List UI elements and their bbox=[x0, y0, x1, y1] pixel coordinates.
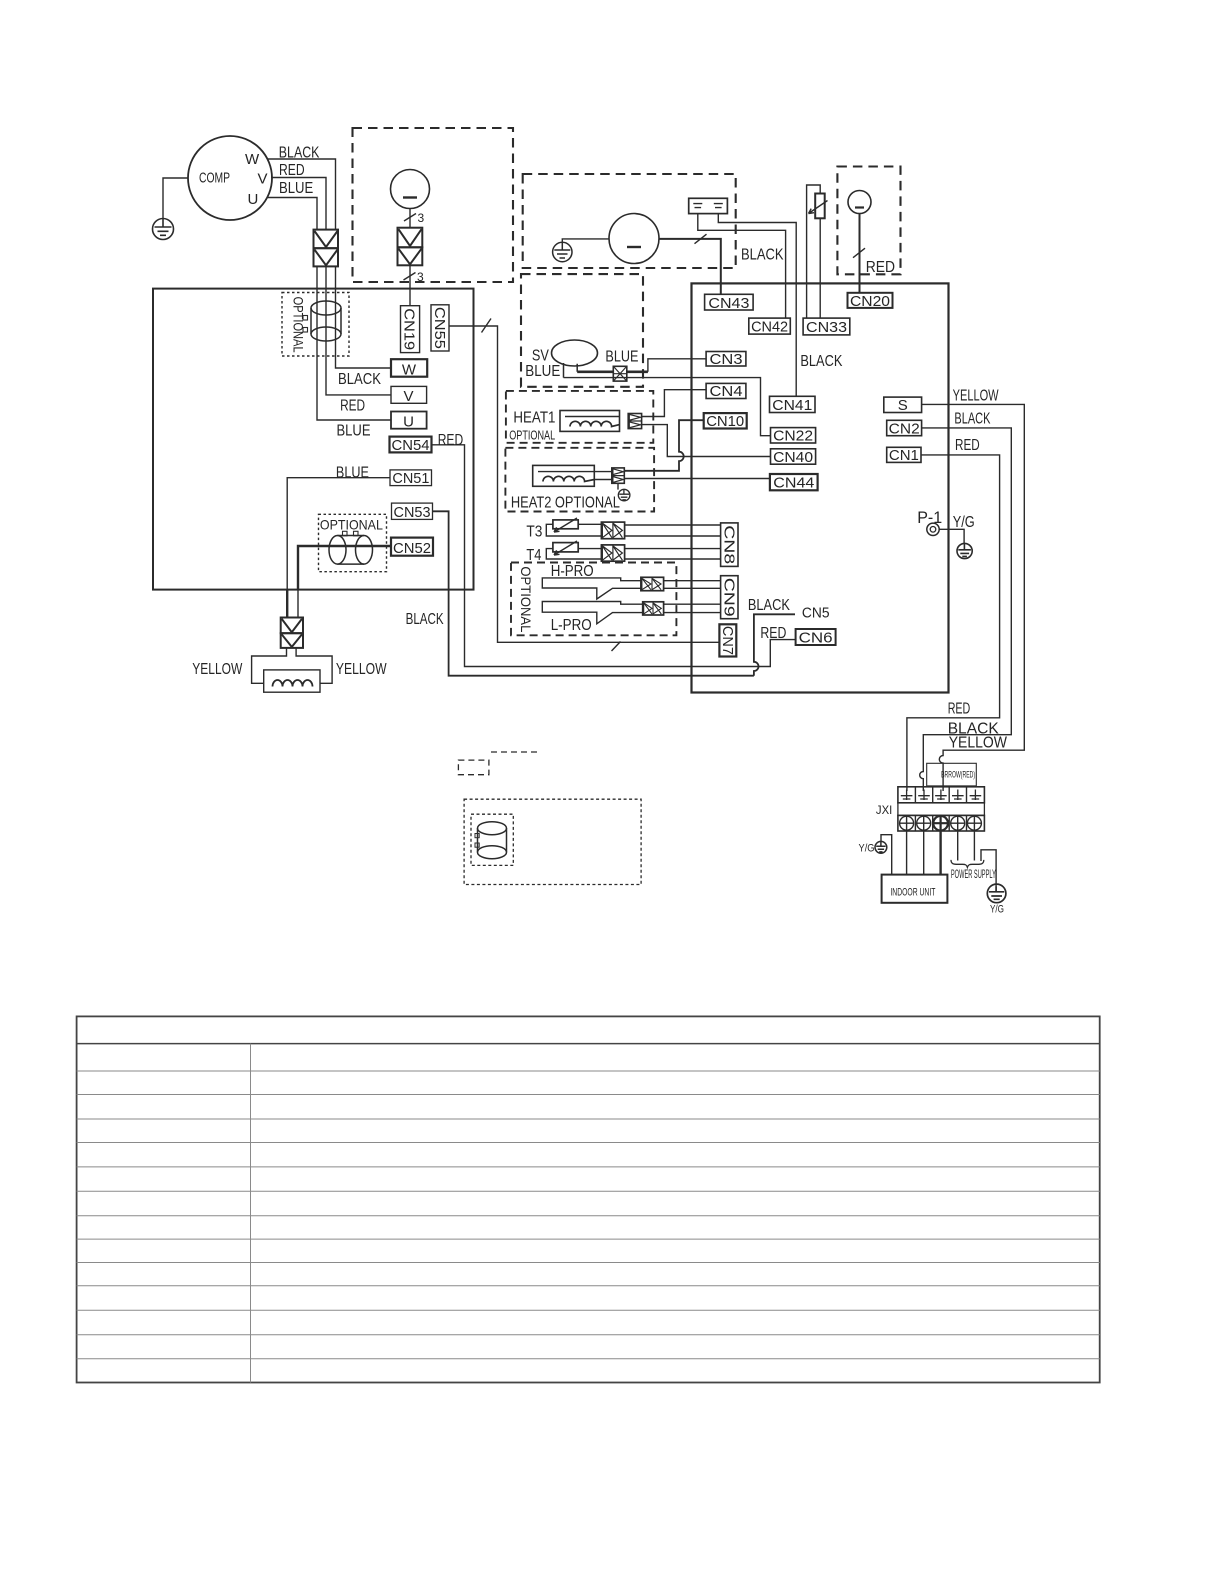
ground (power supply Y/G) bbox=[987, 884, 1006, 903]
svg-text:RED: RED bbox=[438, 432, 464, 449]
connector (T4 plug) bbox=[601, 545, 624, 561]
svg-text:RED: RED bbox=[948, 701, 971, 718]
wire heater2 to CN44 bbox=[594, 479, 770, 480]
svg-text:RED: RED bbox=[279, 162, 305, 179]
svg-text:CN41: CN41 bbox=[772, 397, 812, 414]
pressure switch H-PRO bbox=[542, 578, 641, 599]
terminal screws bottom bbox=[900, 816, 914, 830]
svg-text:BLACK: BLACK bbox=[741, 246, 784, 263]
svg-text:HEAT1: HEAT1 bbox=[513, 410, 555, 427]
connector (fan motor plug) bbox=[398, 228, 423, 266]
svg-text:3: 3 bbox=[418, 211, 425, 225]
compressor COMP bbox=[188, 136, 272, 220]
svg-text:BLUE: BLUE bbox=[525, 363, 560, 380]
table outer border bbox=[77, 1016, 1100, 1382]
left unit box bbox=[153, 289, 474, 590]
wire CN1 RED to terminal 1 bbox=[907, 455, 1000, 791]
svg-text:COMP: COMP bbox=[199, 170, 230, 187]
svg-text:P-1: P-1 bbox=[917, 508, 942, 527]
svg-text:BLACK: BLACK bbox=[338, 371, 381, 388]
connector CN40 bbox=[771, 449, 816, 464]
svg-text:V: V bbox=[403, 388, 413, 405]
jumper BROWN(RED) loop bbox=[927, 763, 977, 786]
slash 3-wire mark bbox=[404, 214, 416, 222]
slash 3-wire mark bbox=[404, 273, 416, 281]
wire CN2 BLACK to terminal 2 bbox=[920, 428, 1012, 791]
fuse body bbox=[815, 194, 825, 219]
OPTIONAL reactor dotted box bbox=[282, 293, 349, 357]
wire motor to connector bbox=[409, 209, 411, 228]
svg-text:BLACK: BLACK bbox=[279, 145, 320, 162]
svg-text:CN42: CN42 bbox=[751, 319, 788, 336]
svg-text:INDOOR UNIT: INDOOR UNIT bbox=[890, 887, 935, 899]
slash mark bbox=[695, 234, 707, 244]
connector CN1 bbox=[887, 447, 921, 462]
svg-text:CN20: CN20 bbox=[850, 293, 890, 310]
wire H-PRO to CN9 bbox=[664, 581, 721, 589]
wire capacitor to CN42 bbox=[698, 214, 786, 319]
connector CN41 bbox=[770, 396, 816, 412]
terminal W bbox=[391, 359, 427, 377]
SV coil bbox=[552, 340, 598, 366]
wire power supply earth bbox=[981, 850, 996, 886]
svg-text:Y/G: Y/G bbox=[990, 904, 1004, 916]
ground (fan motor earth) bbox=[553, 242, 572, 261]
thermistor T4 bbox=[553, 543, 578, 552]
wire to V terminal bbox=[326, 266, 391, 395]
svg-text:CN53: CN53 bbox=[394, 504, 431, 521]
terminal U bbox=[391, 412, 427, 429]
wire V RED bbox=[271, 178, 326, 230]
HEAT2 dashed box bbox=[505, 448, 654, 512]
svg-text:CN40: CN40 bbox=[773, 449, 813, 466]
connector (T3 plug) bbox=[601, 522, 624, 539]
wire SV to CN22 bbox=[564, 378, 771, 436]
wire CN55 to CN7 bbox=[449, 326, 719, 642]
SV solenoid dashed box bbox=[521, 274, 643, 387]
legend dashed line bbox=[491, 751, 538, 753]
wire motor to ground bbox=[562, 239, 609, 243]
wire CN54 RED to CN6 bbox=[432, 445, 796, 667]
terminal screws top bbox=[901, 790, 913, 801]
terminal S bbox=[884, 397, 922, 412]
connector (heater2 plug) bbox=[612, 468, 625, 483]
ground (heater2 earth) bbox=[617, 483, 619, 489]
connector CN6 bbox=[796, 629, 836, 645]
svg-text:V: V bbox=[258, 171, 268, 188]
connector CN54 bbox=[390, 437, 432, 453]
svg-text:YELLOW: YELLOW bbox=[192, 661, 243, 678]
wire capacitor to CN41 bbox=[718, 214, 796, 397]
wire motor to CN43 bbox=[659, 239, 721, 294]
svg-text:RED: RED bbox=[866, 259, 895, 276]
svg-text:RED: RED bbox=[760, 625, 786, 642]
connector CN4 bbox=[706, 383, 746, 398]
svg-text:CN10: CN10 bbox=[706, 413, 744, 430]
svg-text:CN51: CN51 bbox=[392, 470, 429, 487]
svg-text:JXI: JXI bbox=[876, 805, 892, 817]
connector CN8 bbox=[721, 523, 738, 567]
connector CN22 bbox=[771, 428, 816, 443]
svg-text:L-PRO: L-PRO bbox=[551, 617, 592, 634]
terminal block JXI middle band bbox=[898, 803, 985, 816]
wire SV to connector (thick BLUE) bbox=[564, 363, 578, 378]
svg-text:H-PRO: H-PRO bbox=[551, 563, 594, 580]
wire L-PRO to CN9 bbox=[664, 604, 721, 612]
wire CN52 to transformer (thick) bbox=[298, 546, 391, 590]
thermal fuse loop to CN33 bbox=[807, 185, 821, 318]
wire to W terminal bbox=[336, 266, 392, 368]
wire S YELLOW to terminal 3 bbox=[922, 404, 1025, 791]
connector CN43 bbox=[705, 294, 754, 310]
pressure switch L-PRO bbox=[542, 602, 642, 624]
svg-text:CN44: CN44 bbox=[773, 475, 814, 492]
capacitor block bbox=[689, 198, 728, 213]
svg-text:CN55: CN55 bbox=[431, 307, 448, 349]
heater 1 bbox=[560, 411, 620, 432]
svg-text:T4: T4 bbox=[526, 547, 541, 564]
connector (transformer plug) bbox=[281, 618, 303, 648]
connector CN20 bbox=[848, 293, 893, 308]
svg-text:CN7: CN7 bbox=[719, 626, 736, 655]
svg-text:BLUE: BLUE bbox=[337, 423, 371, 440]
svg-text:BLUE: BLUE bbox=[605, 348, 638, 365]
svg-text:HEAT2 OPTIONAL: HEAT2 OPTIONAL bbox=[511, 495, 620, 512]
svg-text:U: U bbox=[248, 191, 259, 208]
legend outer dotted box bbox=[464, 799, 641, 884]
svg-text:CN4: CN4 bbox=[710, 383, 743, 400]
svg-text:BRROW(RED): BRROW(RED) bbox=[941, 770, 975, 781]
terminal block JXI bottom row bbox=[898, 815, 985, 831]
terminal block JXI top row bbox=[898, 787, 985, 803]
legend inner dotted box bbox=[471, 814, 513, 865]
wires to power supply bbox=[958, 831, 975, 861]
wires to indoor unit bbox=[907, 831, 924, 875]
svg-text:CN52: CN52 bbox=[393, 540, 431, 557]
svg-text:BLUE: BLUE bbox=[279, 180, 313, 197]
connector (L-PRO plug) bbox=[643, 602, 664, 615]
wire motor to CN20 bbox=[859, 214, 861, 293]
fan motor dashed box 2 bbox=[523, 174, 736, 268]
slash mark bbox=[853, 248, 865, 258]
svg-text:U: U bbox=[403, 414, 414, 431]
svg-text:BLACK: BLACK bbox=[800, 353, 842, 370]
connector (heater1 plug) bbox=[628, 414, 641, 429]
svg-text:RED: RED bbox=[340, 398, 365, 415]
svg-text:CN1: CN1 bbox=[889, 447, 919, 464]
terminal V bbox=[391, 386, 427, 403]
svg-text:W: W bbox=[245, 151, 260, 168]
connector (SV plug) bbox=[613, 366, 627, 381]
connector (COMP 3-pin plug) bbox=[314, 230, 339, 267]
svg-text:CN2: CN2 bbox=[889, 420, 920, 437]
fuse slash bbox=[809, 201, 828, 214]
OPTIONAL current-sensor dotted box bbox=[319, 514, 387, 571]
connector box CN19 bbox=[401, 306, 420, 353]
connector CN2 bbox=[887, 420, 922, 435]
terminal P-1 bbox=[927, 523, 939, 535]
current sensor (horizontal cylinder) bbox=[329, 531, 373, 564]
svg-text:Y/G: Y/G bbox=[859, 843, 875, 855]
svg-text:CN19: CN19 bbox=[401, 308, 418, 350]
wire CN53 BLACK to CN5 bbox=[433, 511, 796, 675]
connector CN51 bbox=[390, 470, 432, 486]
svg-text:CN33: CN33 bbox=[806, 319, 847, 336]
svg-text:CN9: CN9 bbox=[720, 578, 737, 617]
connector CN3 bbox=[706, 352, 746, 367]
OPTIONAL pressure-switch dashed box bbox=[511, 563, 676, 636]
wire CN51 BLUE to transformer bbox=[287, 478, 390, 590]
svg-text:CN54: CN54 bbox=[392, 437, 430, 454]
wire to U terminal bbox=[317, 266, 391, 420]
wire T3 to CN8 bbox=[625, 525, 721, 536]
svg-text:BLACK: BLACK bbox=[406, 611, 444, 628]
legend small dashed box bbox=[458, 760, 489, 775]
svg-text:YELLOW: YELLOW bbox=[953, 388, 1000, 405]
svg-text:CN43: CN43 bbox=[708, 295, 749, 312]
wire connector to CN19 bbox=[409, 265, 411, 305]
svg-text:BLACK: BLACK bbox=[954, 410, 990, 427]
wire heater1 to CN4 bbox=[642, 390, 707, 417]
fan motor dashed box 3 bbox=[837, 167, 900, 275]
connector CN7 bbox=[719, 624, 736, 656]
svg-text:CN8: CN8 bbox=[720, 525, 737, 564]
svg-text:S: S bbox=[898, 397, 908, 414]
ground (indoor Y/G) bbox=[881, 835, 892, 875]
connector box CN55 bbox=[431, 305, 449, 351]
thermistor T3 bbox=[553, 520, 578, 529]
connector CN44 bbox=[770, 474, 818, 490]
transformer coil box bbox=[264, 670, 320, 692]
svg-text:OPTIONAL: OPTIONAL bbox=[509, 427, 555, 442]
wire COMP to ground bbox=[163, 178, 188, 218]
connector CN10 bbox=[704, 413, 747, 428]
fan motor M1 bbox=[391, 170, 430, 209]
svg-text:T3: T3 bbox=[526, 524, 542, 541]
svg-text:CN3: CN3 bbox=[710, 351, 743, 368]
connector CN9 bbox=[721, 576, 738, 619]
HEAT1 dashed box bbox=[506, 391, 653, 443]
heater 2 bbox=[533, 465, 595, 486]
svg-text:BLUE: BLUE bbox=[336, 465, 369, 482]
connector CN42 bbox=[749, 318, 791, 334]
wire U BLUE bbox=[268, 198, 317, 230]
slash multiwire mark bbox=[482, 319, 492, 333]
svg-text:W: W bbox=[402, 362, 417, 379]
connector CN52 bbox=[391, 538, 433, 556]
svg-text:3: 3 bbox=[417, 270, 424, 284]
wire SV to CN3 bbox=[648, 359, 706, 372]
svg-text:YELLOW: YELLOW bbox=[336, 661, 387, 678]
svg-text:OPTIONAL: OPTIONAL bbox=[518, 566, 534, 632]
fan motor dashed box 1 bbox=[353, 128, 514, 282]
table column divider bbox=[250, 1044, 252, 1383]
table header separator bbox=[77, 1043, 1100, 1045]
wire heater1 to CN40 bbox=[642, 425, 771, 457]
transformer leads bbox=[252, 648, 287, 683]
wire T4 to CN8 bbox=[625, 549, 721, 559]
table row lines bbox=[77, 1071, 1100, 1359]
svg-text:CN22: CN22 bbox=[773, 428, 813, 445]
connector CN53 bbox=[392, 503, 433, 519]
wire CN10 to heater2 (with jump) bbox=[624, 420, 703, 471]
reactor (vertical cylinder) bbox=[303, 301, 341, 341]
svg-text:OPTIONAL: OPTIONAL bbox=[320, 517, 383, 533]
svg-text:CN5: CN5 bbox=[802, 605, 830, 622]
connector (H-PRO plug) bbox=[641, 577, 664, 590]
fan motor M3 bbox=[848, 191, 871, 214]
svg-text:YELLOW: YELLOW bbox=[949, 734, 1008, 751]
svg-text:SV: SV bbox=[532, 348, 549, 365]
svg-text:CN6: CN6 bbox=[799, 629, 833, 646]
svg-text:BLACK: BLACK bbox=[748, 597, 790, 614]
wire P-1 to earth bbox=[939, 529, 964, 544]
legend cylinder bbox=[475, 822, 507, 859]
ground (P-1 earth Y/G) bbox=[957, 543, 972, 558]
ground (COMP earth) bbox=[153, 218, 174, 239]
main control board box bbox=[692, 283, 949, 692]
svg-text:POWER SUPPLY: POWER SUPPLY bbox=[951, 867, 996, 881]
transformer winding bbox=[273, 680, 313, 687]
connector CN33 bbox=[803, 318, 850, 335]
wire heater2 top bbox=[594, 470, 679, 473]
svg-text:Y/G: Y/G bbox=[953, 514, 975, 531]
fan motor M2 bbox=[609, 214, 659, 264]
brace power supply bbox=[951, 860, 984, 868]
slash multiwire mark bbox=[612, 642, 621, 652]
wire W BLACK bbox=[268, 159, 336, 230]
indoor unit box bbox=[882, 875, 948, 903]
svg-text:OPTIONAL: OPTIONAL bbox=[291, 297, 306, 353]
svg-text:RED: RED bbox=[955, 437, 980, 454]
